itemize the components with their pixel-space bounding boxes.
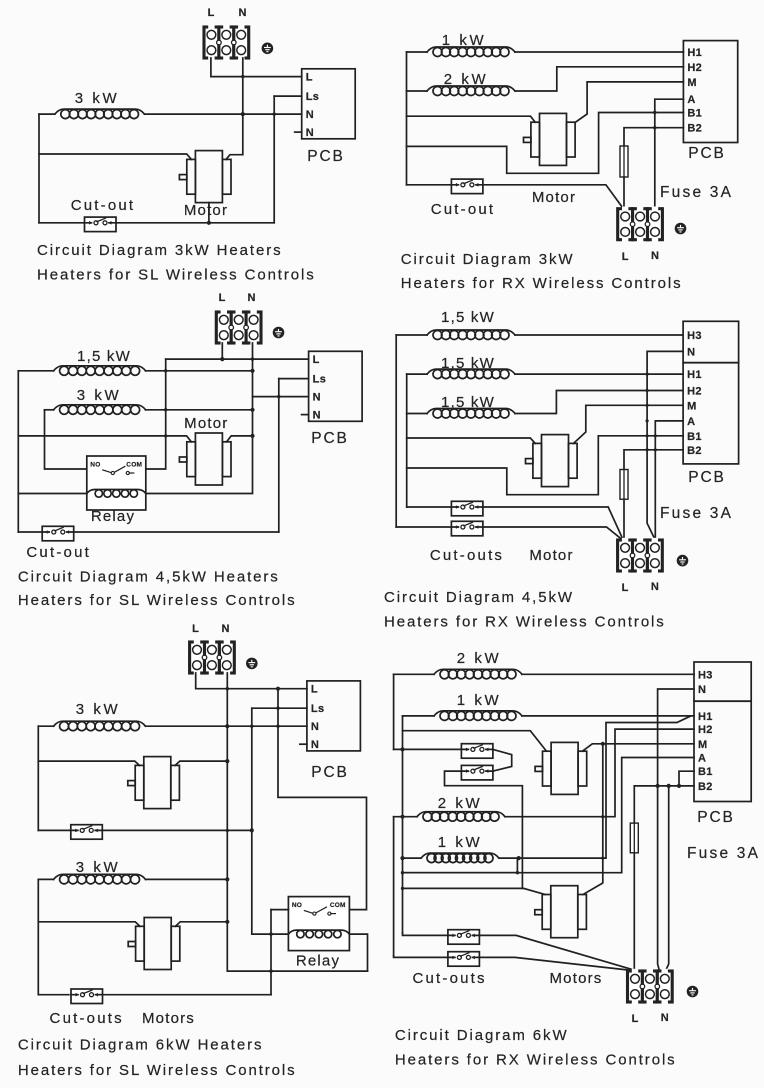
motor M1 (TL) bbox=[179, 151, 231, 203]
Ls riser down to cut-out line (ML) bbox=[278, 379, 280, 532]
wire bus2 to motor2 left (BL) bbox=[38, 922, 140, 927]
crossing artifact M riser / heater3 (BR) bbox=[601, 815, 604, 818]
wire inner bus to heater3 (MR) bbox=[407, 413, 427, 415]
terminal block mains (BL) bbox=[190, 640, 235, 675]
wire bus A1 to heater1 (BR) bbox=[394, 673, 434, 675]
wire bus to 2kW heater (TR) bbox=[407, 90, 428, 92]
svg-text:N: N bbox=[698, 684, 706, 696]
svg-text:2 kW: 2 kW bbox=[438, 795, 483, 812]
wire bus to cut-out (ML) bbox=[18, 531, 42, 533]
bus A2 (BR) bbox=[393, 817, 395, 956]
svg-text:3 kW: 3 kW bbox=[76, 701, 121, 718]
wire heater1 to PCB N (BL) bbox=[146, 725, 307, 727]
PCB U1 (TL) bbox=[302, 69, 356, 139]
wire motor bottom (TL) bbox=[208, 203, 210, 223]
svg-text:H3: H3 bbox=[687, 330, 702, 342]
svg-text:PCB: PCB bbox=[688, 469, 726, 486]
svg-text:L: L bbox=[313, 354, 320, 366]
wire bus to motor left (MR) bbox=[407, 438, 536, 443]
wire PCB M to motor right (MR) bbox=[574, 405, 684, 443]
earth symbol (BR) bbox=[687, 986, 699, 998]
PCB U6 lower section (BR) bbox=[694, 701, 751, 801]
svg-text:Motor: Motor bbox=[184, 415, 228, 432]
svg-text:L: L bbox=[311, 684, 318, 696]
svg-text:Cut-out: Cut-out bbox=[431, 201, 496, 218]
svg-text:Heaters for SL Wireless Contro: Heaters for SL Wireless Controls bbox=[18, 592, 297, 609]
svg-text:N: N bbox=[651, 250, 659, 262]
svg-text:L: L bbox=[219, 292, 226, 304]
crossing artifacts N riser over pin lines (MR) bbox=[646, 373, 649, 376]
wire cut-out1 to cut-out2 (BR) bbox=[493, 749, 512, 771]
wire bus1 to motor1 left (BL) bbox=[38, 761, 139, 765]
wire heater to PCB N (TL) bbox=[145, 113, 302, 115]
L bus down to relay COM (ML) bbox=[146, 359, 166, 469]
elbow heater4 to bus B (BR) bbox=[403, 858, 518, 873]
svg-text:PCB: PCB bbox=[307, 148, 345, 165]
svg-text:N: N bbox=[248, 292, 256, 304]
wire PCB N to terminal N (BR) bbox=[658, 689, 694, 971]
wire bus A2 to cut-out4 (BR) bbox=[394, 956, 448, 958]
crossing artifact M riser / heater4 (BR) bbox=[601, 857, 604, 860]
wire 3kW left down to relay NO (ML) bbox=[45, 410, 87, 469]
crossing artifact bus/3kW (ML) bbox=[164, 408, 167, 411]
wire heater2 to N vert (BL) bbox=[146, 878, 228, 880]
wire motor2 right to N vert (BL) bbox=[176, 922, 228, 927]
crossing artifact bus/1.5kW (ML) bbox=[164, 369, 167, 372]
wire cut-out to terminal L (TR) bbox=[483, 185, 623, 208]
svg-text:3 kW: 3 kW bbox=[75, 90, 120, 107]
junction 3kW / N vert (ML) bbox=[250, 408, 254, 412]
heater coil 1kW a (BR) bbox=[434, 711, 522, 721]
wire bus to 1kW heater (TR) bbox=[407, 51, 428, 53]
svg-text:L: L bbox=[622, 251, 629, 263]
svg-text:NO: NO bbox=[292, 902, 302, 909]
motor M1 (BL) bbox=[128, 757, 180, 809]
svg-text:Circuit Diagram 6kW Heaters: Circuit Diagram 6kW Heaters bbox=[18, 1037, 264, 1054]
wire bus1 to heater1 (BL) bbox=[38, 725, 53, 727]
junction B2 line / N drop (BR) bbox=[656, 784, 660, 788]
svg-text:M: M bbox=[687, 400, 696, 412]
junction terminal N / N line (BL) bbox=[225, 724, 229, 728]
crossing artifact V1/N line (BL) bbox=[276, 725, 279, 728]
wire 1.5kW to N vert (ML) bbox=[146, 370, 253, 372]
svg-text:H1: H1 bbox=[698, 711, 713, 723]
earth symbol (MR) bbox=[677, 555, 689, 567]
junction V1 / L line (BL) bbox=[276, 687, 280, 691]
svg-text:Heaters for RX Wireless Contro: Heaters for RX Wireless Controls bbox=[395, 1052, 677, 1069]
heater coil 1.5kW b (MR) bbox=[427, 369, 515, 379]
junction bus B / heater4 (BR) bbox=[400, 856, 404, 860]
relay RL1 (ML) bbox=[87, 456, 146, 510]
svg-text:COM: COM bbox=[126, 462, 142, 469]
svg-text:L: L bbox=[208, 7, 215, 19]
svg-text:H2: H2 bbox=[687, 62, 702, 74]
junction motor / N vert (ML) bbox=[250, 434, 254, 438]
M riser to motor2 right (BR) bbox=[583, 744, 603, 895]
cut-out switch (TR) bbox=[451, 179, 483, 194]
svg-text:N: N bbox=[311, 721, 319, 733]
junction bus B / cutout1 line (BR) bbox=[400, 747, 404, 751]
outer left bus (MR) bbox=[395, 335, 397, 527]
heater coil 1.5kW c (MR) bbox=[427, 409, 515, 419]
svg-text:N: N bbox=[306, 109, 314, 121]
motor M1 (BR) bbox=[535, 742, 587, 794]
heater coil 1.5kW (ML) bbox=[54, 366, 146, 376]
wire PCB B1 to B2 line (BR) bbox=[679, 771, 694, 786]
crossing artifact V1/Ls line (BL) bbox=[276, 707, 279, 710]
motor M1 (MR) bbox=[526, 435, 578, 487]
svg-text:Ls: Ls bbox=[311, 703, 325, 715]
motor M2 (BR) bbox=[535, 886, 587, 938]
svg-text:H1: H1 bbox=[687, 47, 702, 59]
wire B2 line to fuse (BR) bbox=[633, 786, 635, 823]
wire motor1 right to N vert (BL) bbox=[175, 761, 227, 765]
wire cut-out to Ls riser (ML) bbox=[74, 531, 279, 533]
crossing artifact Ls/N (ML) bbox=[277, 395, 280, 398]
svg-text:3 kW: 3 kW bbox=[76, 859, 121, 876]
wire buses to cut-out1 (BR) bbox=[394, 748, 462, 750]
svg-text:Cut-outs: Cut-outs bbox=[50, 1010, 124, 1027]
svg-text:Relay: Relay bbox=[91, 508, 135, 525]
fuse 3A (MR) bbox=[620, 470, 628, 500]
wire heater3 to PCB H2 (BR) bbox=[505, 729, 694, 817]
junction B2 line / A drop (BR) bbox=[667, 784, 671, 788]
wire fuse to terminal L (MR) bbox=[623, 499, 625, 540]
svg-text:COM: COM bbox=[330, 902, 346, 909]
crossing artifact Ls/N (TL) bbox=[273, 112, 276, 115]
wire PCB A to terminal N (MR) bbox=[655, 421, 683, 540]
junction bus B / A return line (BR) bbox=[401, 871, 404, 874]
inner left bus (MR) bbox=[406, 374, 408, 507]
wire PCB Ls (BL) bbox=[252, 707, 307, 709]
svg-text:N: N bbox=[313, 410, 321, 422]
svg-text:PCB: PCB bbox=[311, 430, 349, 447]
svg-text:1 kW: 1 kW bbox=[457, 692, 502, 709]
svg-text:N: N bbox=[313, 392, 321, 404]
crossing artifact N vert / cutout1 line (BL) bbox=[226, 829, 229, 832]
crossing artifact N vert / L line (ML) bbox=[251, 357, 254, 360]
svg-text:L: L bbox=[192, 623, 199, 635]
cut-out switch 2 (BL) bbox=[71, 989, 103, 1004]
heater coil 1kW (TR) bbox=[427, 47, 515, 57]
svg-text:N: N bbox=[222, 623, 230, 635]
wire PCB Ls (ML) bbox=[279, 378, 309, 380]
crossing artifact A/B2 (TR) bbox=[653, 126, 656, 129]
N vertical from terminal to relay coil right (ML) bbox=[146, 343, 253, 494]
wire bus B to heater4 (BR) bbox=[403, 857, 422, 859]
relay RL1 (BL) bbox=[288, 897, 349, 951]
wire bus to motor left (ML) bbox=[18, 436, 191, 442]
wire PCB A to terminal N (TR) bbox=[655, 99, 684, 209]
svg-text:B1: B1 bbox=[687, 108, 702, 120]
wire bus to relay coil left (ML) bbox=[18, 493, 87, 495]
junction M line / M riser (BR) bbox=[601, 742, 605, 746]
svg-text:H2: H2 bbox=[687, 386, 702, 398]
junction elbow / A return line (BR) bbox=[516, 871, 519, 874]
wire inner bus to cut-out1 (MR) bbox=[407, 506, 452, 508]
svg-text:1 kW: 1 kW bbox=[438, 834, 483, 851]
wire bus2 to cut-out2 (BL) bbox=[38, 994, 69, 996]
wire left bus to heater (TL) bbox=[39, 113, 55, 115]
svg-text:Motors: Motors bbox=[142, 1010, 195, 1027]
wire outer bus to heater1 (MR) bbox=[396, 334, 427, 336]
wire cut-out4 to terminal L (BR) bbox=[480, 957, 633, 970]
cut-out switch 4 (BR) bbox=[448, 952, 480, 967]
crossing artifact A/B1 (TR) bbox=[653, 111, 656, 114]
svg-text:Fuse 3A: Fuse 3A bbox=[660, 505, 733, 522]
wire cut-out2 down to motor2 line (BR) bbox=[445, 771, 523, 888]
Ls riser to relay coil left (BL) bbox=[252, 708, 289, 934]
wire fuse to terminal L (BR) bbox=[633, 853, 635, 971]
wire heater2 to PCB H1 (MR) bbox=[515, 373, 683, 375]
PCB U3 (ML) bbox=[309, 351, 363, 421]
svg-text:M: M bbox=[698, 739, 707, 751]
heater coil 3kW (TL) bbox=[55, 109, 145, 119]
svg-text:N: N bbox=[239, 7, 247, 19]
svg-text:Motor: Motor bbox=[184, 202, 228, 219]
junction bus B / heater3 (BR) bbox=[400, 815, 404, 819]
earth symbol (BL) bbox=[246, 658, 258, 670]
wire relay NO (BL) bbox=[271, 909, 288, 911]
far left bus (ML) bbox=[17, 371, 19, 532]
svg-text:1,5 kW: 1,5 kW bbox=[441, 309, 495, 326]
A riser to PCB A (BR) bbox=[622, 758, 694, 873]
junction heater4 / elbow (BR) bbox=[517, 856, 521, 860]
wire bus to motor left (TL) bbox=[39, 154, 191, 159]
svg-text:PCB: PCB bbox=[697, 809, 735, 826]
svg-text:A: A bbox=[687, 416, 695, 428]
svg-text:PCB: PCB bbox=[688, 145, 726, 162]
cut-out switch 1 (MR) bbox=[451, 501, 483, 516]
crossing artifact NO riser / N elbow (BL) bbox=[269, 969, 272, 972]
svg-text:B2: B2 bbox=[687, 123, 702, 135]
svg-text:Motor: Motor bbox=[529, 547, 573, 564]
motor M1 (ML) bbox=[179, 433, 231, 485]
svg-text:Heaters for RX Wireless Contro: Heaters for RX Wireless Controls bbox=[384, 614, 666, 631]
wire bus to motor left (TR) bbox=[407, 116, 536, 122]
svg-text:Cut-out: Cut-out bbox=[26, 544, 91, 561]
heater coil 3kW b (BL) bbox=[54, 874, 146, 884]
wire bus to cut-out (TL) bbox=[39, 222, 85, 224]
wire cut-out1 to terminal L (MR) bbox=[483, 507, 622, 538]
svg-text:Circuit Diagram 4,5kW Heaters: Circuit Diagram 4,5kW Heaters bbox=[18, 569, 280, 586]
heater coil 2kW b (BR) bbox=[417, 812, 505, 822]
terminal block mains (MR) bbox=[618, 538, 663, 573]
cut-out switch (ML) bbox=[42, 526, 74, 541]
PCB U4 upper section H3/N (MR) bbox=[683, 321, 739, 362]
wire motor1 right / PCB M (BR) bbox=[582, 744, 694, 751]
svg-text:Heaters for SL Wireless Contro: Heaters for SL Wireless Controls bbox=[37, 267, 316, 284]
wire outer bus to cut-out2 (MR) bbox=[396, 526, 451, 528]
svg-text:Circuit Diagram 4,5kW: Circuit Diagram 4,5kW bbox=[384, 589, 574, 606]
motor M1 (TR) bbox=[524, 113, 576, 165]
svg-text:L: L bbox=[632, 1013, 639, 1025]
motor M2 (BL) bbox=[128, 918, 180, 970]
PCB U5 (BL) bbox=[307, 681, 361, 751]
wire bus B to motor2 left (BR) bbox=[403, 888, 546, 894]
cut-out switch 3 (BR) bbox=[448, 930, 480, 945]
left bus 2 (BL) bbox=[37, 879, 39, 994]
cut-out switch 2 (BR) bbox=[461, 765, 493, 780]
svg-text:B1: B1 bbox=[687, 431, 702, 443]
A return line (BR) bbox=[403, 872, 622, 874]
wire bus B to cut-out3 (BR) bbox=[403, 933, 448, 935]
cut-out switch 2 (MR) bbox=[451, 521, 483, 536]
wire terminal N down to motor right (TL) bbox=[226, 58, 243, 159]
wire inner bus to heater2 (MR) bbox=[407, 373, 427, 375]
svg-text:N: N bbox=[687, 346, 695, 358]
earth symbol (TL) bbox=[262, 43, 274, 55]
crossing artifact A/B1 (MR) bbox=[654, 434, 657, 437]
svg-text:H1: H1 bbox=[687, 369, 702, 381]
crossing artifact Ls riser/N line (BL) bbox=[250, 725, 253, 728]
wire fuse to terminal L (TR) bbox=[623, 177, 625, 209]
wire B2 line to PCB (BR) bbox=[634, 785, 694, 787]
svg-text:B2: B2 bbox=[698, 781, 713, 793]
terminal block mains (TL) bbox=[204, 25, 249, 60]
svg-text:Cut-out: Cut-out bbox=[71, 197, 136, 214]
svg-text:N: N bbox=[661, 1012, 669, 1024]
heater coil 2kW (TR) bbox=[427, 86, 515, 96]
wire PCB N to terminal N (MR) bbox=[647, 351, 683, 540]
L line to PCB (ML) bbox=[166, 358, 309, 360]
crossing artifact A/B2 (MR) bbox=[654, 448, 657, 451]
wire Ls down to cut-out line (TL) bbox=[273, 96, 275, 223]
svg-text:Circuit Diagram 3kW: Circuit Diagram 3kW bbox=[401, 251, 575, 268]
PCB U4 lower section (MR) bbox=[683, 363, 739, 464]
terminal block mains (TR) bbox=[618, 207, 663, 242]
wire terminal L to PCB L (TL) bbox=[211, 58, 302, 77]
svg-text:Heaters for RX Wireless Contro: Heaters for RX Wireless Controls bbox=[401, 275, 683, 292]
wire bus to cut-out (TR) bbox=[407, 184, 452, 186]
junction terminal N / N line (TL) bbox=[241, 112, 245, 116]
wire heater1 to PCB H3 (MR) bbox=[515, 334, 683, 336]
wire 1kW to PCB H1 (TR) bbox=[515, 51, 683, 53]
svg-text:N: N bbox=[306, 127, 314, 139]
wire bus B to heater2 (BR) bbox=[403, 715, 435, 717]
wire to 3kW heater (ML) bbox=[45, 409, 54, 411]
wire heater4 riser to PCB H1 (BR) bbox=[499, 716, 690, 858]
wire bus to 1.5kW heater (ML) bbox=[18, 370, 53, 372]
junction Ls riser / cut-out1 line (BL) bbox=[250, 828, 254, 832]
wire cut-out2 to terminal L (MR) bbox=[483, 527, 621, 539]
svg-text:3 kW: 3 kW bbox=[77, 387, 122, 404]
NO riser down to cut-out2 line (BL) bbox=[270, 910, 272, 995]
svg-text:Ls: Ls bbox=[306, 91, 320, 103]
junction motor2 / N vert (BL) bbox=[225, 920, 229, 924]
cut-out switch 1 (BL) bbox=[71, 825, 103, 840]
fuse 3A (TR) bbox=[620, 146, 628, 177]
svg-text:A: A bbox=[698, 753, 706, 765]
wire PCB B1 under motor to bus (MR) bbox=[407, 436, 683, 495]
svg-text:Fuse 3A: Fuse 3A bbox=[687, 845, 760, 862]
svg-text:Circuit Diagram 6kW: Circuit Diagram 6kW bbox=[395, 1027, 569, 1044]
svg-text:NO: NO bbox=[90, 462, 100, 469]
heater coil 3kW (ML) bbox=[54, 405, 146, 415]
svg-text:N: N bbox=[311, 739, 319, 751]
wire bus1 to cut-out1 (BL) bbox=[38, 829, 70, 831]
heater coil 2kW a (BR) bbox=[434, 669, 522, 679]
svg-text:L: L bbox=[622, 582, 629, 594]
wire bus A2 to heater3 (BR) bbox=[394, 816, 417, 818]
svg-text:Relay: Relay bbox=[296, 953, 340, 970]
wire terminal L to PCB L (BL) bbox=[196, 673, 307, 689]
wire L to relay COM (BL) bbox=[278, 689, 367, 910]
junction motor1 / N vert (BL) bbox=[225, 759, 229, 763]
wire bus B to motor1 left (BR) bbox=[403, 731, 547, 751]
terminal block mains (BR) bbox=[628, 969, 673, 1004]
left bus (TR) bbox=[406, 52, 408, 185]
junction heater2 / N vert (BL) bbox=[225, 877, 229, 881]
earth symbol (TR) bbox=[675, 223, 687, 235]
svg-text:B2: B2 bbox=[687, 445, 702, 457]
N vertical from terminal (BL) bbox=[227, 673, 367, 971]
wire terminal L down (ML) bbox=[221, 343, 223, 359]
bus A1 (BR) bbox=[393, 674, 395, 749]
svg-text:Motor: Motor bbox=[532, 189, 576, 206]
wire heater1 to PCB H3 (BR) bbox=[522, 673, 694, 675]
svg-text:Cut-outs: Cut-outs bbox=[430, 547, 504, 564]
crossing artifact bus/motor line (ML) bbox=[164, 434, 167, 437]
svg-text:M: M bbox=[687, 77, 696, 89]
earth symbol (ML) bbox=[273, 327, 285, 339]
svg-text:2 kW: 2 kW bbox=[457, 650, 502, 667]
fuse 3A (BR) bbox=[630, 823, 638, 853]
svg-text:A: A bbox=[687, 94, 695, 106]
wire cut-out1 to Ls riser (BL) bbox=[102, 829, 252, 831]
terminal block mains (ML) bbox=[216, 310, 261, 345]
wire PCB B2 to fuse (TR) bbox=[624, 128, 683, 146]
wire heater2 to PCB H1 (BR) bbox=[522, 715, 694, 717]
wire PCB B1 under motor to bus (TR) bbox=[407, 113, 684, 174]
wire bus2 to heater2 (BL) bbox=[38, 878, 53, 880]
N line to PCB (ML) bbox=[253, 396, 309, 398]
heater coil 3kW a (BL) bbox=[54, 721, 146, 731]
svg-text:N: N bbox=[651, 581, 659, 593]
svg-text:Circuit Diagram 3kW Heaters: Circuit Diagram 3kW Heaters bbox=[37, 242, 283, 259]
junction bus B / motor2 line (BR) bbox=[401, 887, 404, 890]
wire cut-out to Ls riser (TL) bbox=[116, 222, 274, 224]
wire heater3 to PCB H2 (MR) bbox=[515, 391, 683, 414]
crossing artifact L line (TL) bbox=[241, 75, 244, 78]
cut-out switch 1 (BR) bbox=[461, 744, 493, 759]
junction terminal L / L line (ML) bbox=[220, 357, 224, 361]
svg-text:Cut-outs: Cut-outs bbox=[412, 970, 486, 987]
svg-text:1,5 kW: 1,5 kW bbox=[77, 348, 131, 365]
wire 3kW to N vert (ML) bbox=[146, 409, 253, 411]
bus B (BR) bbox=[402, 716, 404, 933]
svg-text:B1: B1 bbox=[698, 766, 713, 778]
svg-text:H2: H2 bbox=[698, 724, 713, 736]
crossing artifact N/L line (BL) bbox=[226, 687, 229, 690]
crossing artifact NO riser / coil line (BL) bbox=[269, 932, 272, 935]
svg-text:L: L bbox=[306, 72, 313, 84]
svg-text:PCB: PCB bbox=[311, 764, 349, 781]
junction 1.5kW / N vert (ML) bbox=[250, 369, 254, 373]
svg-text:H3: H3 bbox=[698, 669, 713, 681]
wire PCB M to motor right (TR) bbox=[576, 82, 684, 122]
wire PCB B2 to fuse (MR) bbox=[624, 450, 683, 470]
svg-text:Motors: Motors bbox=[549, 970, 602, 987]
svg-text:Heaters for SL Wireless Contro: Heaters for SL Wireless Controls bbox=[18, 1062, 297, 1079]
cut-out switch (TL) bbox=[85, 217, 117, 232]
svg-text:Ls: Ls bbox=[313, 374, 327, 386]
PCB U6 upper section H3/N (BR) bbox=[694, 662, 751, 701]
PCB U2 (TR) bbox=[683, 41, 737, 143]
wire cut-out3 to terminal L (BR) bbox=[480, 935, 633, 969]
wire PCB Ls (TL) bbox=[274, 95, 302, 97]
left bus 1 (BL) bbox=[37, 726, 39, 830]
